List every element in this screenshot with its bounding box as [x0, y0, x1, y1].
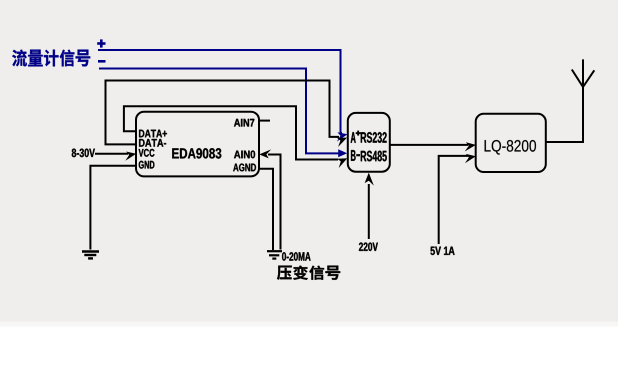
arrowhead LQ top — [463, 141, 476, 152]
arrowhead AIN0 — [259, 149, 271, 158]
pin GND — [139, 161, 155, 169]
wire LQ-8200 to antenna — [546, 59, 583, 142]
radio LQ-8200 — [476, 114, 546, 172]
flow meter signal label 流量计信号 — [12, 50, 90, 67]
arrowhead LQ bottom — [463, 152, 476, 163]
pin B- — [351, 150, 356, 161]
wire RS232 to LQ-8200 — [390, 144, 468, 146]
minus marker — [98, 60, 106, 63]
plus marker — [97, 42, 105, 45]
wire GND to ground — [90, 166, 136, 250]
converter RS232/RS485 — [348, 113, 390, 172]
arrowhead 220V — [365, 173, 374, 186]
ground (left) — [82, 252, 99, 259]
pin AGND — [233, 164, 256, 172]
pin AIN0 — [234, 151, 255, 159]
wire AGND down — [259, 169, 273, 250]
label LQ-8200 — [485, 140, 536, 155]
220V label — [359, 243, 378, 252]
arrowhead A+ black — [334, 134, 349, 147]
wire flow+ to A+ (navy) — [98, 50, 342, 133]
pin AIN7 — [234, 119, 254, 127]
antenna — [572, 70, 595, 88]
wire 8-30V to VCC — [95, 153, 128, 155]
pressure signal label 压变信号 — [277, 266, 340, 280]
pin DATA- — [139, 139, 166, 147]
wire 5V to LQ-8200 — [439, 156, 468, 244]
label RS485 — [361, 151, 387, 162]
IC EDA9083 — [136, 112, 259, 177]
5V 1A label — [431, 247, 455, 255]
wire DATA- to A+ (black) — [106, 81, 340, 145]
arrowhead VCC — [124, 150, 137, 161]
AIN7 stub — [259, 120, 270, 122]
ground (0-20MA) — [267, 251, 282, 258]
0-20MA label — [282, 252, 311, 261]
pin VCC — [139, 149, 155, 157]
pin A+ — [351, 132, 356, 143]
wire 220V to converter — [368, 184, 370, 239]
8-30V label — [72, 149, 95, 158]
arrowhead B- navy — [338, 149, 347, 157]
label EDA9083 — [172, 148, 221, 158]
pin DATA+ — [139, 130, 167, 138]
arrowhead B- black — [335, 155, 350, 168]
label RS232 — [361, 132, 387, 143]
wire pressure signal to AIN0 — [268, 155, 281, 250]
wire flow- to B- (navy) — [99, 69, 340, 154]
wire DATA+ to B- (black) — [124, 106, 338, 159]
arrowhead A+ navy — [335, 130, 349, 141]
